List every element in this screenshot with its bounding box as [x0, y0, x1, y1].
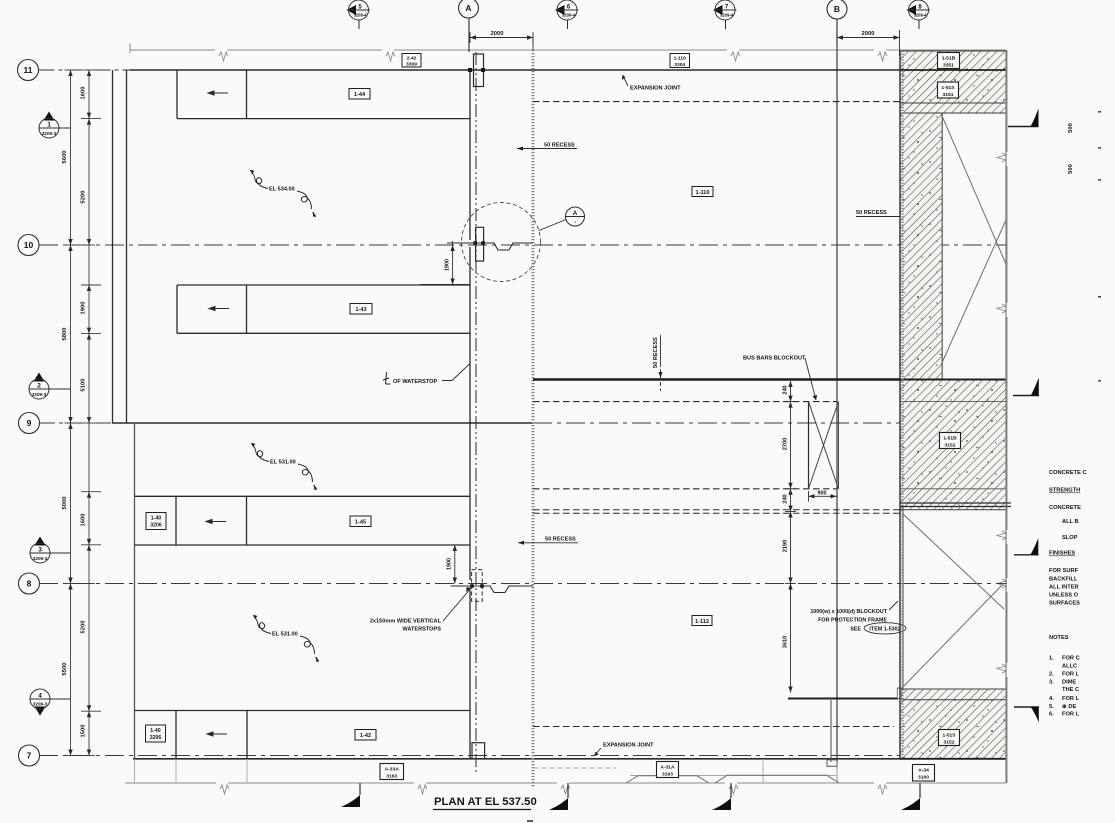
band 1-42 top edge — [135, 710, 471, 712]
svg-text:50 RECESS: 50 RECESS — [653, 337, 659, 368]
wall boundary y509.8 — [900, 509, 1006, 511]
svg-text:NOTES: NOTES — [1049, 635, 1069, 641]
svg-text:SURFACES: SURFACES — [1049, 601, 1080, 607]
flow arrow band 1-43 — [209, 307, 229, 311]
extension line y545 stub — [448, 544, 470, 546]
wall recess line y401.6 — [900, 401, 1006, 403]
svg-text:4: 4 — [38, 693, 42, 700]
dashed hidden line y488.8 — [533, 488, 837, 490]
center gray recess line x533 — [532, 50, 535, 787]
break mark bottom border x731 — [729, 785, 738, 794]
dim 1900 at grid10 — [452, 245, 454, 285]
label box 1-51S/3151 — [938, 82, 959, 98]
top border start tick — [129, 43, 131, 53]
svg-text:2000: 2000 — [491, 31, 504, 37]
section marker 7 top — [713, 0, 737, 29]
50 recess note mid left — [518, 537, 578, 545]
hatched wall strip lower — [902, 689, 1007, 700]
section marker 2 left — [29, 373, 70, 400]
band 1-43 divider — [246, 285, 248, 333]
svg-text:1: 1 — [47, 122, 51, 129]
band 1-45 top edge — [135, 495, 471, 497]
grid bubble 7 — [19, 745, 40, 766]
svg-text:1-110: 1-110 — [696, 190, 710, 196]
section cut flag right y395.5 — [1013, 378, 1039, 396]
section cut flag right y126 — [1008, 109, 1039, 127]
wall pier edge x942 — [941, 113, 943, 380]
bottom cut flag x731 — [712, 783, 731, 810]
svg-text:FOR L: FOR L — [1062, 712, 1080, 718]
svg-text:5200: 5200 — [81, 191, 87, 204]
svg-text:CONCRETE C: CONCRETE C — [1049, 470, 1087, 476]
svg-text:3151: 3151 — [943, 92, 954, 98]
wall boundary y51 — [900, 50, 1006, 52]
svg-text:9: 9 — [27, 418, 32, 428]
threshold trapezoid b — [715, 775, 839, 783]
band 1-45 divider a — [175, 496, 177, 545]
svg-text:4.: 4. — [1049, 696, 1054, 702]
svg-text:ITEM 1-5302: ITEM 1-5302 — [869, 627, 900, 633]
flow arrow band 1-42 — [207, 732, 227, 736]
label box 1-44 — [349, 89, 370, 100]
break mark right border y534 — [997, 531, 1006, 540]
wall line grid 11 — [130, 69, 900, 71]
hatched wall band 2 — [900, 70, 1006, 103]
band 1-44 divider — [246, 70, 248, 119]
svg-text:UNLESS O: UNLESS O — [1049, 593, 1079, 599]
outer dim line left — [70, 70, 72, 756]
room label 1-110 — [692, 187, 713, 197]
heavy wall line y379.5 — [533, 378, 900, 381]
svg-text:8: 8 — [27, 579, 32, 589]
svg-text:3309: 3309 — [406, 62, 417, 68]
waterstop dots grid10 — [473, 241, 477, 245]
section marker 4 left — [30, 689, 70, 716]
grid line 9 dash left — [39, 422, 112, 424]
svg-text:1-110: 1-110 — [674, 56, 687, 62]
ticks outer dim line — [65, 69, 77, 71]
flow arrow band 1-44 — [208, 91, 228, 95]
svg-text:240: 240 — [783, 494, 789, 503]
svg-text:ALL B: ALL B — [1062, 519, 1079, 525]
label box 1-42 — [355, 730, 376, 741]
svg-text:3152: 3152 — [945, 443, 956, 449]
section cut flag right y554.8 — [1014, 538, 1039, 555]
svg-text:2x150mm WIDE VERTICAL: 2x150mm WIDE VERTICAL — [370, 619, 442, 625]
label box A-34/3160 — [913, 765, 935, 782]
svg-text:DIME: DIME — [1062, 680, 1076, 686]
X brace lower panel — [902, 513, 1004, 688]
label box 1-40/3206 lower — [146, 725, 166, 742]
grid line B light lower extension — [836, 762, 838, 783]
label box 1-110/3304 — [670, 54, 690, 68]
band 1-42 divider a — [175, 711, 177, 760]
wall edge column A vertical — [469, 70, 471, 759]
svg-text:3209-3: 3209-3 — [33, 702, 48, 707]
hatched wall left pier — [900, 113, 942, 380]
dashed hidden line y401.6 — [533, 401, 837, 403]
ticks inner dim line — [83, 69, 95, 71]
wall edge notch at 1-112 right — [897, 688, 901, 699]
hatched wall band mid — [900, 380, 1006, 510]
svg-text:3209-3: 3209-3 — [42, 131, 57, 136]
grid line 9 dash right — [533, 422, 1007, 424]
svg-text:3.: 3. — [1049, 680, 1054, 686]
svg-text:2700: 2700 — [783, 438, 789, 450]
svg-text:A: A — [465, 3, 471, 13]
svg-text:2190: 2190 — [783, 540, 789, 552]
svg-text:1600: 1600 — [81, 514, 87, 527]
dashed hidden line y510 — [533, 509, 900, 511]
grid line A stem — [468, 18, 470, 52]
wall inner edge x903 lower panel — [902, 510, 904, 689]
svg-text:1-51S: 1-51S — [941, 85, 955, 91]
svg-text:PLAN AT EL 537.50: PLAN AT EL 537.50 — [434, 796, 537, 808]
break mark right border y310 — [997, 304, 1006, 313]
break mark top border x880 — [878, 52, 887, 61]
dim line stack x790.5 — [790, 381, 792, 693]
grid line B — [836, 19, 838, 762]
right border line — [1006, 50, 1008, 152]
waterstop dots grid8 — [470, 584, 474, 588]
dim 2000 at B line — [837, 37, 900, 39]
label box 1-40/3206 upper — [146, 513, 166, 530]
svg-text:EL 531.00: EL 531.00 — [272, 632, 298, 638]
extension line x533 top — [532, 38, 534, 51]
detail circle grid10 — [462, 203, 541, 282]
svg-text:A-31A: A-31A — [660, 765, 675, 771]
svg-text:3163: 3163 — [662, 772, 673, 778]
svg-text:1-40: 1-40 — [151, 516, 161, 522]
break mark right border y585 — [997, 579, 1006, 588]
band 1-43 bottom edge — [177, 332, 470, 334]
wall step line y506.5 — [900, 506, 1011, 508]
svg-text:STRENGTH: STRENGTH — [1049, 488, 1080, 494]
svg-text:A-34: A-34 — [918, 768, 929, 774]
label box 1-43 — [350, 304, 372, 315]
svg-text:1-51B: 1-51B — [943, 436, 957, 442]
left wall line lower — [134, 423, 136, 759]
detail marker A bubble — [565, 207, 585, 226]
svg-text:⊕ DE: ⊕ DE — [1062, 704, 1076, 710]
bus bars blockout rect — [809, 402, 839, 489]
dim 2000 A right tick — [532, 32, 534, 43]
svg-text:3209-4: 3209-4 — [913, 13, 927, 18]
break mark top border x221 — [219, 52, 228, 61]
dim 900 under blockout — [809, 495, 837, 497]
svg-text:1900: 1900 — [447, 558, 453, 570]
50 recess note upper left — [517, 143, 577, 151]
svg-text:3610: 3610 — [783, 636, 789, 648]
svg-text:3209-4: 3209-4 — [720, 13, 734, 18]
short wall line x831 — [830, 700, 832, 762]
grid bubble 9 — [19, 413, 40, 434]
svg-text:7: 7 — [27, 751, 32, 761]
grid bubble 11 — [18, 60, 39, 81]
label box 1-51B/3152 — [940, 433, 961, 449]
svg-text:1-43: 1-43 — [355, 307, 366, 313]
column blockout at A grid10 — [476, 227, 484, 261]
50 recess rotated note — [653, 335, 663, 391]
grid line 8 — [39, 583, 1007, 585]
band 1-45 divider b — [246, 496, 248, 545]
svg-text:1900: 1900 — [81, 302, 87, 315]
waterstop profile at grid10 — [450, 243, 533, 250]
small notch below wall x832 — [827, 760, 837, 767]
svg-text:CONCRETE: CONCRETE — [1049, 505, 1081, 511]
wall boundary y70 black — [900, 69, 1006, 71]
svg-text:10: 10 — [24, 240, 34, 250]
svg-text:1000(w) x 1000(d) BLOCKOUT: 1000(w) x 1000(d) BLOCKOUT — [810, 609, 887, 615]
grid bubble A — [459, 0, 479, 18]
svg-text:5600: 5600 — [62, 151, 68, 164]
notes column text — [1049, 470, 1087, 718]
svg-text:FOR C: FOR C — [1062, 656, 1080, 662]
leader to detail marker A — [539, 220, 566, 231]
svg-text:1500: 1500 — [81, 725, 87, 738]
break mark bottom border x222 — [220, 785, 229, 794]
bottom cut flag x360 — [341, 783, 360, 807]
band 1-44 bottom edge — [177, 118, 470, 120]
svg-text:A-33A: A-33A — [385, 767, 400, 773]
svg-text:240: 240 — [783, 385, 789, 394]
break mark bottom border x563 — [561, 785, 570, 794]
svg-text:FOR L: FOR L — [1062, 672, 1080, 678]
svg-text:50 RECESS: 50 RECESS — [545, 537, 576, 543]
wall line grid 9 — [112, 422, 533, 424]
section marker 6 top — [555, 0, 579, 29]
wall boundary y379.5 — [900, 379, 1006, 381]
band 1-42 divider b — [246, 711, 248, 760]
extension line y284.5 — [420, 284, 470, 286]
svg-text:SEE: SEE — [850, 627, 861, 633]
svg-text:WATERSTOPS: WATERSTOPS — [402, 627, 441, 633]
svg-text:3304: 3304 — [674, 62, 685, 68]
dim arrowheads outer line — [68, 70, 72, 76]
svg-text:5200: 5200 — [81, 621, 87, 634]
left double wall line inner — [126, 70, 128, 423]
svg-text:BACKFILL: BACKFILL — [1049, 577, 1078, 583]
section marker 1 left — [39, 112, 70, 139]
svg-text:OF WATERSTOP: OF WATERSTOP — [393, 379, 438, 385]
svg-text:EL 534.00: EL 534.00 — [269, 187, 295, 193]
break mark right border y159 — [997, 153, 1006, 162]
break mark top border x733 — [731, 52, 740, 61]
waterstop profile at grid8 — [451, 586, 534, 593]
svg-text:3209-3: 3209-3 — [33, 556, 48, 561]
svg-text:3206: 3206 — [150, 735, 162, 741]
grid line 7 — [39, 755, 1007, 757]
left double wall line outer — [112, 70, 114, 423]
svg-text:FOR SURF: FOR SURF — [1049, 568, 1079, 574]
svg-text:3: 3 — [38, 547, 42, 554]
light extension lines below grid7 — [135, 759, 837, 783]
svg-text:1-40: 1-40 — [150, 728, 160, 734]
wall bottom line grid 7 — [133, 758, 901, 760]
svg-text:50 RECESS: 50 RECESS — [544, 143, 575, 149]
svg-text:ALLC: ALLC — [1062, 664, 1077, 670]
grid bubble 10 — [18, 235, 39, 256]
bottom border line — [125, 782, 216, 784]
hatched wall band top 1 — [900, 51, 1006, 70]
blockout X brace — [809, 402, 839, 489]
arrows on x790.5 — [788, 381, 792, 387]
EL 531.00 note upper with squiggle leaders — [252, 443, 316, 490]
svg-text:2-42: 2-42 — [407, 56, 417, 62]
tick dots right margin — [1098, 111, 1101, 382]
flow arrow band 1-45 — [206, 520, 226, 524]
svg-text:1-42: 1-42 — [360, 733, 371, 739]
EL 534.00 note with squiggle leaders — [251, 170, 315, 217]
svg-text:3163: 3163 — [386, 774, 397, 780]
blockout shelf line y698.5 — [788, 698, 898, 700]
svg-text:1-51S: 1-51S — [942, 733, 956, 739]
svg-text:EXPANSION JOINT: EXPANSION JOINT — [630, 86, 681, 92]
extension at y243 left — [447, 242, 470, 244]
svg-text:EXPANSION JOINT: EXPANSION JOINT — [603, 743, 654, 749]
grid bubble B — [827, 0, 847, 19]
break mark top border x388 — [386, 52, 395, 61]
dim 2000 B right tick / extension — [899, 30, 901, 56]
svg-text:FOR PROTECTION FRAME: FOR PROTECTION FRAME — [818, 618, 887, 624]
svg-text:1600: 1600 — [81, 87, 87, 100]
svg-text:EL 531.00: EL 531.00 — [270, 460, 296, 466]
arrowheads 2000 B — [837, 35, 843, 39]
joint dots at grid11 — [468, 68, 472, 72]
svg-text:1-51B: 1-51B — [942, 56, 956, 62]
title underline — [433, 809, 531, 811]
top border line — [130, 49, 215, 51]
dim 2000 A left tick — [469, 32, 471, 43]
svg-text:5.: 5. — [1049, 704, 1054, 710]
svg-text:2: 2 — [37, 383, 41, 390]
grid line A centerline dash-dot-dot — [475, 52, 477, 772]
dim 1900 at grid8 — [454, 545, 456, 584]
wall boundary y113 — [900, 112, 1006, 114]
dim 2000 at A line — [470, 37, 533, 39]
svg-text:BUS BARS BLOCKOUT: BUS BARS BLOCKOUT — [743, 356, 806, 362]
arrowheads 2000 A — [470, 35, 476, 39]
label box 1-45 — [350, 516, 371, 527]
svg-text:500: 500 — [1068, 164, 1074, 174]
svg-text:5500: 5500 — [62, 663, 68, 676]
expansion joint dashed line bottom — [533, 726, 894, 728]
svg-text:THE C: THE C — [1062, 687, 1079, 693]
svg-text:50 RECESS: 50 RECESS — [856, 210, 887, 216]
column blockout at A grid11 — [474, 54, 484, 87]
svg-text:1-44: 1-44 — [354, 92, 366, 98]
band 1-43 top edge — [177, 284, 470, 286]
wall right edge — [1005, 50, 1007, 783]
svg-text:FINISHES: FINISHES — [1049, 551, 1075, 557]
label box 2-42/3309 — [402, 54, 421, 68]
svg-text:11: 11 — [24, 65, 33, 75]
section marker 8 top — [907, 0, 931, 29]
break mark bottom border x880 — [878, 785, 887, 794]
grid line 11 dash segment — [39, 69, 134, 71]
section cut flag right y707 flipped — [1014, 707, 1039, 723]
section marker 3 left — [30, 537, 70, 564]
svg-text:3160: 3160 — [918, 775, 929, 781]
svg-text:3206: 3206 — [150, 523, 162, 529]
wall left edge line — [899, 51, 901, 759]
tiny mark below title — [527, 820, 533, 822]
wall recess line y488.8 — [900, 488, 1006, 490]
svg-text:1.: 1. — [1049, 656, 1054, 662]
svg-text:2.: 2. — [1049, 672, 1054, 678]
ticks on x790.5 — [785, 401, 796, 403]
inner dim line left — [88, 70, 90, 756]
band 1-45 bottom edge — [135, 544, 471, 546]
svg-text:3209-4: 3209-4 — [562, 13, 576, 18]
hatched wall band bottom — [900, 700, 1006, 760]
expansion joint dashed line top — [533, 101, 900, 103]
grid line 10 — [39, 244, 1007, 246]
svg-text:900: 900 — [818, 491, 827, 497]
label box A-33A/3163 — [380, 764, 404, 780]
svg-text:-: - — [574, 220, 576, 226]
wall step line y503 — [900, 502, 1011, 504]
section marker 5 top — [347, 0, 371, 29]
svg-text:5000: 5000 — [62, 497, 68, 510]
wall boundary y700 — [902, 699, 1007, 701]
svg-text:3351: 3351 — [943, 63, 954, 69]
dashed hidden line y513 — [533, 512, 900, 514]
dim arrowheads inner line — [87, 70, 91, 76]
svg-text:FOR L: FOR L — [1062, 696, 1080, 702]
column blockout at A grid8 dashed — [472, 570, 483, 602]
label box 1-51B/3351 — [938, 53, 960, 69]
svg-text:3152: 3152 — [944, 740, 955, 746]
svg-text:6.: 6. — [1049, 712, 1054, 718]
svg-text:1900: 1900 — [445, 259, 451, 271]
svg-text:1-112: 1-112 — [695, 619, 709, 625]
svg-text:ALL INTER: ALL INTER — [1049, 585, 1079, 591]
wall boundary y689 — [902, 688, 1007, 690]
svg-text:SLOP: SLOP — [1062, 535, 1078, 541]
svg-text:1-45: 1-45 — [355, 520, 366, 526]
threshold trapezoid a — [626, 776, 709, 783]
svg-text:A: A — [573, 210, 578, 217]
room label 1-112 — [692, 616, 712, 626]
dim 2000 B left tick — [836, 32, 838, 43]
column blockout at A grid7 — [472, 743, 485, 759]
band 1-44 left edge — [176, 70, 178, 119]
bottom cut flag x568 — [549, 783, 568, 810]
50 recess note right at wall — [856, 210, 912, 217]
svg-text:500: 500 — [1068, 123, 1074, 133]
break mark bottom border x420 — [418, 785, 427, 794]
svg-text:3209-4: 3209-4 — [353, 13, 367, 18]
wall left edge stipple — [901, 51, 903, 759]
chevron brace upper panel — [941, 114, 1006, 365]
grid bubble 8 — [19, 573, 40, 594]
svg-text:B: B — [834, 4, 840, 14]
label box A-31A/3163 — [657, 762, 679, 778]
svg-text:2000: 2000 — [862, 31, 875, 37]
hatched wall strip 3 — [900, 103, 1006, 113]
svg-text:5100: 5100 — [81, 379, 87, 392]
EL 531.00 note lower with squiggle leaders — [254, 615, 318, 662]
svg-text:5800: 5800 — [62, 328, 68, 341]
svg-text:3209-3: 3209-3 — [32, 392, 47, 397]
label box 1-51S/3152 — [939, 730, 960, 746]
bottom cut flag x920 — [901, 783, 920, 810]
wall boundary y103 — [900, 102, 1006, 104]
break mark right border y666 — [997, 664, 1006, 673]
wall boundary y759 black — [900, 758, 1006, 760]
band 1-43 left edge — [176, 285, 178, 333]
